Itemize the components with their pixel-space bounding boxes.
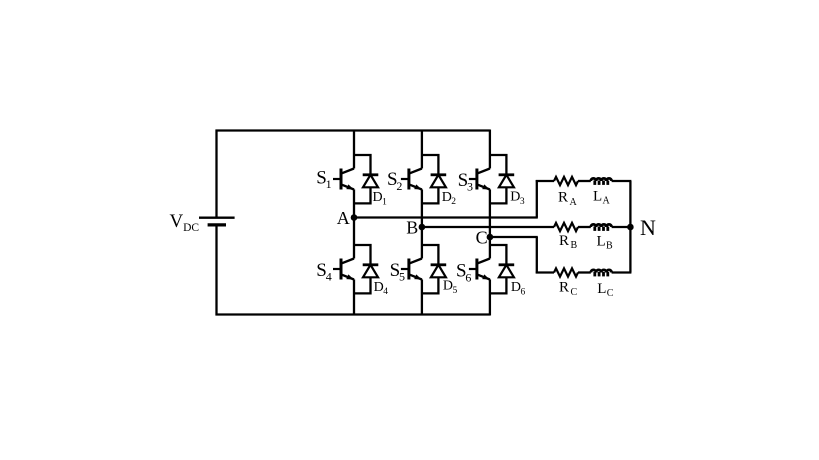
diode D3 cathode bar — [499, 173, 515, 176]
svg-text:L: L — [597, 281, 606, 297]
transistor S2: collector lead — [408, 169, 422, 174]
wire: branch A lead-in — [536, 180, 554, 182]
wire: leg A upper segment (rail to S collector) — [353, 130, 355, 169]
diode D2 antiparallel branch wire — [422, 155, 439, 203]
diode D2 triangle — [431, 175, 446, 188]
transistor S5: body bar — [407, 259, 410, 280]
battery V_DC: long positive plate — [199, 216, 235, 218]
transistor S4: emitter lead with arrow — [341, 274, 355, 279]
transistor S5: gate lead — [401, 268, 409, 270]
wire: phase C line from node C to load elbow — [490, 236, 538, 238]
transistor S4: collector lead — [341, 259, 355, 264]
diode D3 triangle — [499, 175, 514, 188]
transistor S1: emitter lead with arrow — [341, 184, 355, 189]
svg-text:A: A — [603, 196, 611, 207]
svg-text:L: L — [597, 233, 606, 249]
transistor S1: gate lead — [333, 178, 341, 180]
svg-text:B: B — [406, 218, 418, 238]
wire: leg C middle segment (S emitter through node C to lower collector) — [489, 189, 491, 258]
svg-text:C: C — [607, 288, 614, 299]
transistor S6: emitter lead with arrow — [476, 274, 490, 279]
node A junction dot — [351, 214, 358, 221]
wire: phase A elbow up to branch A — [536, 180, 538, 218]
svg-text:A: A — [570, 197, 578, 208]
svg-text:1: 1 — [382, 197, 387, 207]
wire: leg A lower segment (lower emitter to bottom rail) — [353, 279, 355, 315]
svg-text:B: B — [571, 240, 578, 251]
svg-text:N: N — [640, 215, 656, 240]
svg-text:3: 3 — [467, 180, 473, 194]
svg-text:A: A — [337, 208, 350, 228]
inductor L_A — [591, 178, 612, 181]
transistor S4: body bar — [340, 259, 343, 280]
wire: top DC rail — [216, 129, 490, 131]
transistor S2: body bar — [407, 169, 410, 190]
svg-text:2: 2 — [451, 197, 456, 207]
wire: branch A lead-out to bus — [612, 180, 632, 182]
wire: branch B lead-out to bus — [612, 226, 632, 228]
svg-text:6: 6 — [521, 287, 526, 297]
wire: leg B upper segment (rail to S collector) — [421, 130, 423, 169]
wire: left vertical from battery - to bottom rail — [215, 225, 217, 316]
svg-text:C: C — [476, 228, 488, 248]
transistor S3: collector lead — [476, 169, 490, 174]
svg-text:6: 6 — [465, 270, 471, 284]
wire: leg B middle segment (S emitter through node B to lower collector) — [421, 189, 423, 258]
svg-text:R: R — [559, 280, 569, 296]
svg-text:C: C — [571, 287, 578, 298]
svg-text:2: 2 — [396, 179, 402, 193]
transistor S6: collector lead — [476, 259, 490, 264]
transistor S4: gate lead — [333, 268, 341, 270]
diode D6 antiparallel branch wire — [490, 245, 507, 293]
diode D4 triangle — [363, 265, 378, 278]
svg-text:1: 1 — [326, 177, 332, 191]
wire: bottom DC rail — [216, 313, 490, 315]
svg-text:D: D — [511, 280, 521, 295]
resistor R_B — [554, 223, 578, 231]
svg-text:R: R — [559, 233, 569, 249]
transistor S3: emitter lead with arrow — [476, 184, 490, 189]
transistor S1: collector lead — [341, 169, 355, 174]
resistor R_A — [554, 177, 578, 185]
wire: branch B lead-in — [421, 226, 554, 228]
wire: right neutral bus vertical — [629, 181, 631, 273]
transistor S5: collector lead — [408, 259, 422, 264]
svg-text:L: L — [593, 188, 602, 204]
svg-text:B: B — [606, 241, 613, 252]
wire: leg C lower segment (lower emitter to bottom rail) — [489, 279, 491, 315]
wire: branch B between R and L — [578, 226, 591, 228]
diode D6 triangle — [499, 265, 514, 278]
transistor S5: emitter lead with arrow — [408, 274, 422, 279]
transistor S2: emitter lead with arrow — [408, 184, 422, 189]
battery V_DC: short negative plate — [208, 223, 226, 226]
diode D1 triangle — [363, 175, 378, 188]
transistor S6: gate lead — [469, 268, 477, 270]
svg-text:D: D — [442, 190, 452, 205]
resistor R_C — [554, 268, 578, 276]
diode D3 antiparallel branch wire — [490, 155, 507, 203]
transistor S6: body bar — [475, 259, 478, 280]
svg-text:DC: DC — [183, 222, 199, 234]
wire: branch C lead-out to bus — [612, 271, 632, 273]
svg-text:3: 3 — [520, 197, 525, 207]
wire: branch C lead-in — [536, 271, 554, 273]
svg-text:D: D — [373, 190, 383, 205]
svg-text:4: 4 — [383, 287, 388, 297]
transistor S1: body bar — [340, 169, 343, 190]
diode D4 antiparallel branch wire — [354, 245, 371, 293]
inductor L_C — [591, 270, 612, 273]
diode D6 cathode bar — [499, 263, 515, 266]
diode D5 antiparallel branch wire — [422, 245, 439, 293]
svg-text:5: 5 — [453, 286, 458, 296]
wire: leg B lower segment (lower emitter to bottom rail) — [421, 279, 423, 315]
svg-text:5: 5 — [399, 270, 405, 284]
wire: left vertical from top rail to battery + — [215, 130, 217, 217]
transistor S2: gate lead — [401, 178, 409, 180]
wire: phase A line from node A to load elbow — [354, 216, 538, 218]
wire: branch A between R and L — [578, 180, 591, 182]
transistor S3: body bar — [475, 169, 478, 190]
wire: branch C between R and L — [578, 271, 591, 273]
diode D5 cathode bar — [431, 263, 447, 266]
node N junction dot — [627, 224, 634, 231]
svg-text:4: 4 — [326, 270, 332, 284]
diode D1 antiparallel branch wire — [354, 155, 371, 203]
diode D2 cathode bar — [431, 173, 447, 176]
diode D4 cathode bar — [363, 263, 379, 266]
node C junction dot — [487, 234, 494, 241]
svg-text:D: D — [443, 279, 453, 294]
transistor S3: gate lead — [469, 178, 477, 180]
svg-text:R: R — [558, 190, 568, 206]
diode D1 cathode bar — [363, 173, 379, 176]
wire: leg A middle segment (S emitter through node A to lower collector) — [353, 189, 355, 258]
wire: phase C elbow down to branch C — [536, 237, 538, 274]
diode D5 triangle — [431, 265, 446, 278]
inductor L_B — [591, 224, 612, 227]
node B junction dot — [419, 224, 426, 231]
wire: leg C upper segment (rail to S collector) — [489, 130, 491, 169]
svg-text:V: V — [170, 211, 184, 232]
